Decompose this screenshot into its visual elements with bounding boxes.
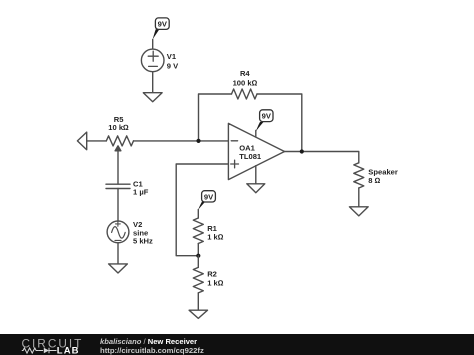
speaker (8 ohm resistor): [354, 163, 364, 207]
op-amp OA1: [228, 123, 284, 183]
svg-text:Speaker: Speaker: [368, 168, 398, 177]
svg-text:R1: R1: [207, 224, 217, 233]
voltage source V2 (sine): [107, 221, 129, 264]
input port arrow (R5 left terminal): [77, 132, 86, 150]
net flag 9V (R1 top): [198, 191, 215, 210]
ground (V1): [143, 93, 162, 102]
net flag 9V (V1 supply): [153, 18, 170, 40]
svg-text:9 V: 9 V: [167, 61, 179, 70]
output wire: [285, 152, 359, 163]
ground (op-amp V-): [247, 184, 265, 193]
resistor R4 (feedback): [199, 89, 302, 151]
net flag 9V (op-amp V+): [256, 110, 273, 132]
resistor R1: [193, 210, 203, 256]
svg-text:V1: V1: [167, 52, 177, 61]
ground (speaker): [349, 207, 368, 216]
svg-text:100 kΩ: 100 kΩ: [233, 79, 258, 88]
resistor R2: [193, 256, 203, 310]
potentiometer R5: [106, 136, 133, 184]
wire R5 to op-amp minus input: [134, 140, 229, 142]
ground (V2): [109, 264, 128, 273]
svg-text:5 kHz: 5 kHz: [133, 237, 153, 246]
capacitor C1: [106, 184, 130, 221]
svg-text:TL081: TL081: [239, 152, 262, 161]
node dot (output): [300, 149, 304, 153]
svg-text:8 Ω: 8 Ω: [368, 176, 380, 185]
svg-text:9V: 9V: [158, 20, 168, 29]
svg-text:1 kΩ: 1 kΩ: [207, 233, 224, 242]
node dot (feedback / minus input): [196, 139, 200, 143]
svg-text:1 kΩ: 1 kΩ: [207, 279, 224, 288]
node dot (R1/R2 junction): [196, 254, 200, 258]
svg-text:R2: R2: [207, 270, 217, 279]
ground (R2): [189, 310, 207, 318]
wire port to R5: [87, 140, 107, 142]
voltage source V1: [141, 40, 164, 93]
svg-text:9V: 9V: [204, 192, 214, 201]
svg-text:1 µF: 1 µF: [133, 187, 149, 196]
svg-text:LAB: LAB: [57, 346, 80, 355]
svg-text:10 kΩ: 10 kΩ: [108, 123, 129, 132]
svg-text:9V: 9V: [262, 112, 272, 121]
svg-text:R4: R4: [240, 69, 250, 78]
footer bar: [0, 334, 474, 355]
CircuitLab logo: [0, 334, 95, 355]
wire plus input to R1/R2 node: [176, 164, 228, 256]
